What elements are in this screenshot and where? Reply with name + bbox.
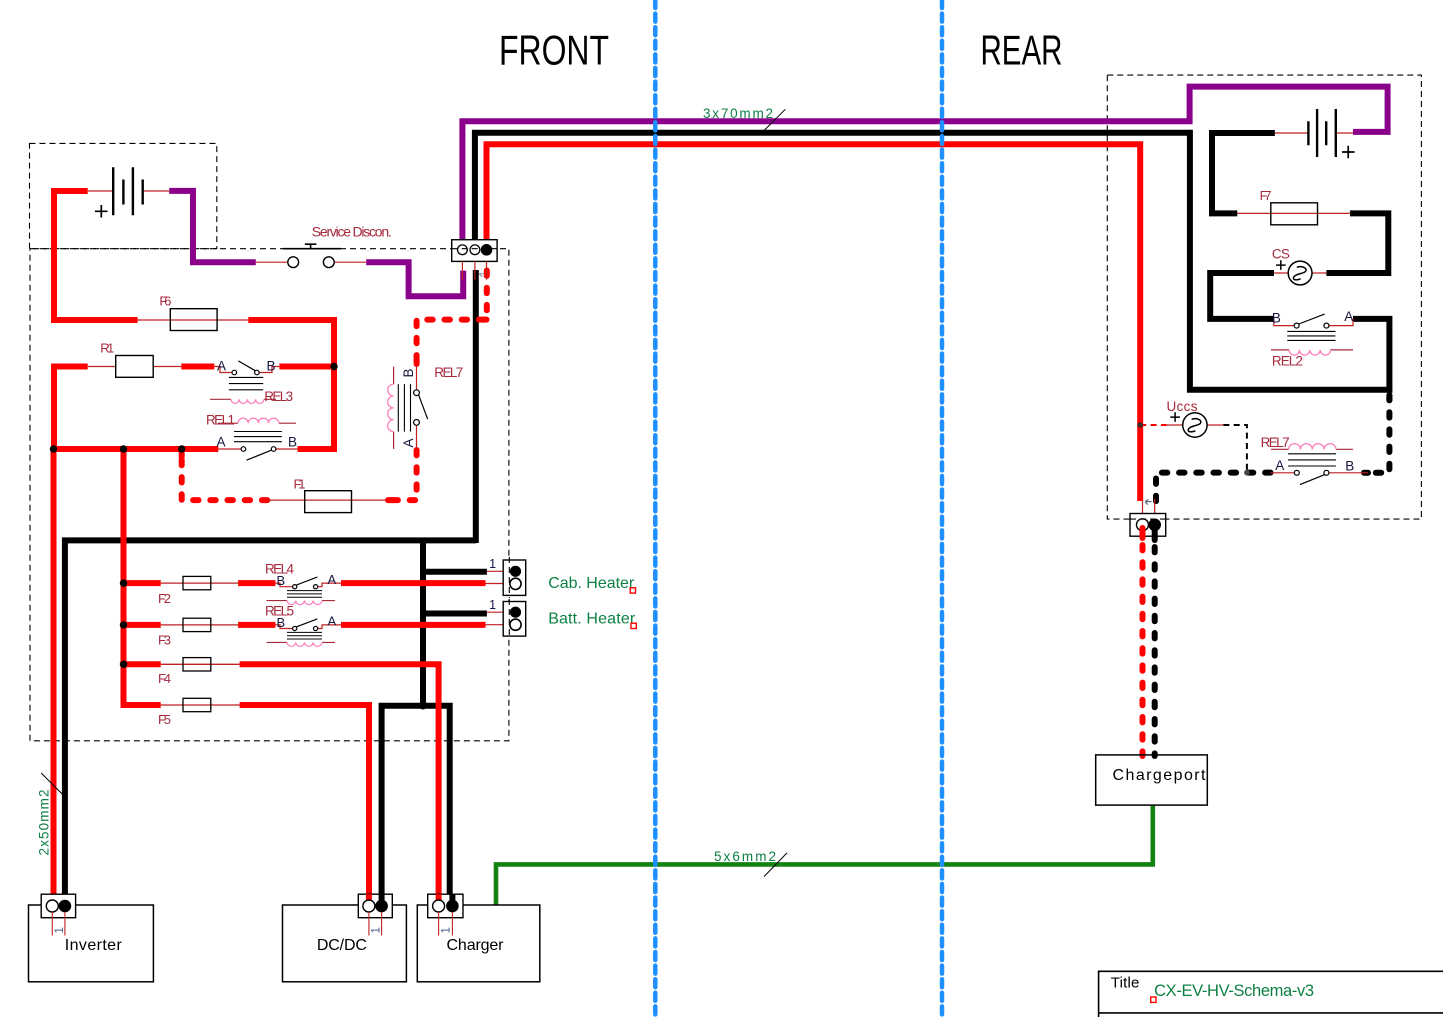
wire black: F7 to CS source: [1326, 213, 1388, 273]
svg-text:REL4: REL4: [265, 562, 294, 577]
source CS: [1272, 247, 1327, 285]
svg-text:Inverter: Inverter: [65, 937, 123, 954]
wire red dashed: connector pin3 down to REL7 contact B: [417, 271, 487, 365]
wire black: connector pin2 down to ground bus: [473, 270, 479, 543]
fuse F4: [158, 658, 240, 687]
connector X7 (charger): [428, 894, 463, 935]
relay REL3 contact: [214, 359, 279, 390]
connector X2 (cab heater, 2-pin): [486, 557, 526, 595]
rear dashed box: [1107, 75, 1421, 519]
relay REL5 coil: [265, 603, 335, 646]
connector X4 (rear HV, 2-pin): [1130, 499, 1166, 536]
svg-text:REL1: REL1: [206, 412, 235, 427]
svg-text:REL7: REL7: [1261, 435, 1290, 450]
svg-text:2x50mm2: 2x50mm2: [37, 790, 52, 856]
junction dot: REL7 coil wire junction: [1244, 470, 1250, 476]
svg-text:1: 1: [489, 557, 496, 571]
relay REL2 coil: [1271, 350, 1353, 368]
wire black: rear battery - to fuse F7: [1212, 133, 1275, 213]
svg-text:B: B: [401, 368, 416, 377]
connector X1 (service, 3-pin): [452, 240, 497, 280]
zone divider mid/rear: [940, 0, 945, 1017]
svg-text:A: A: [217, 359, 226, 374]
wire black: cab heater return tap: [423, 569, 487, 575]
wire red: R1 to REL3 contact A: [181, 364, 214, 370]
wire black: split to DC/DC and charger: [382, 706, 450, 895]
wire black bundle: connector through rear loop: [475, 133, 1392, 390]
wire red: tap to F3: [124, 622, 161, 628]
junction: main bus left: [50, 445, 57, 452]
junction: F4 tap: [120, 661, 127, 668]
resistor R1: [88, 341, 182, 378]
relay REL3 coil: [210, 389, 293, 404]
label Cab. Heater: [548, 575, 635, 593]
wire red: REL3 contact B stub: [279, 364, 334, 370]
svg-text:Chargeport: Chargeport: [1113, 767, 1207, 784]
wire black: heater return drop: [420, 540, 426, 705]
connector X5 (inverter): [41, 894, 75, 935]
svg-text:A: A: [328, 572, 337, 587]
junction: main bus / fuse column: [120, 445, 127, 452]
relay REL4 contact: [275, 572, 341, 597]
relay REL7 (front, vertical): [388, 365, 464, 449]
wire red: F3 to REL5 contact B: [238, 622, 275, 628]
connector X6 (DC/DC): [358, 894, 392, 935]
svg-text:A: A: [401, 438, 416, 447]
wire red: REL5 contact A to batt heater: [341, 622, 486, 628]
wire red dashed: REL7 contact A down to fuse F1: [386, 450, 417, 500]
svg-text:B: B: [1345, 459, 1354, 474]
relay REL7 (rear) contact: [1271, 454, 1369, 485]
fuse F6: [138, 293, 249, 330]
wire black dashed thin: Uccs to REL7 coil circuit: [1223, 425, 1247, 471]
svg-text:REL2: REL2: [1272, 353, 1303, 368]
svg-text:B: B: [267, 359, 276, 374]
junction: cab heater tap: [420, 569, 425, 574]
svg-text:Batt. Heater: Batt. Heater: [548, 610, 636, 627]
connector X4 wire stubs: [1143, 526, 1155, 540]
relay REL5 contact: [275, 614, 341, 639]
wire black: batt heater return tap: [423, 611, 487, 617]
fuse F5: [158, 698, 240, 727]
svg-text:Title: Title: [1111, 975, 1140, 992]
fuse F7: [1237, 188, 1350, 225]
wire black dashed: rear bottom bus to REL7 contact B: [1368, 395, 1389, 473]
svg-text:REL7: REL7: [434, 365, 463, 380]
wire purple: front battery + to service disconnect: [169, 191, 256, 262]
svg-text:A: A: [1344, 309, 1353, 324]
label 5x6mm2 with leader: [714, 849, 787, 877]
svg-text:CX-EV-HV-Schema-v3: CX-EV-HV-Schema-v3: [1154, 982, 1314, 1000]
label 3x70mm2 with leader: [703, 106, 785, 131]
fuse F2: [158, 576, 238, 605]
wire red bundle: connector to rear HV connector: [487, 144, 1141, 501]
wire green: charger to chargeport 5x6mm2: [496, 805, 1153, 905]
junction: main bus / F1 dashed: [178, 445, 185, 452]
wire purple: service disconnect to connector pin 1: [366, 262, 463, 296]
wire red: R1 feed from main bus: [54, 367, 88, 450]
svg-text:F5: F5: [158, 712, 171, 727]
svg-text:F1: F1: [294, 476, 306, 491]
title block frame: [1099, 971, 1443, 1017]
svg-text:CS: CS: [1272, 247, 1290, 262]
svg-text:Cab. Heater: Cab. Heater: [548, 575, 635, 592]
wire red dashed thin: HV red to Uccs source: [1140, 424, 1166, 426]
wire red: F2 to REL4 contact B: [238, 580, 275, 586]
battery BT1 (front): [88, 167, 170, 217]
svg-text:DC/DC: DC/DC: [317, 937, 367, 954]
dashed border overlays across connectors: [452, 249, 1166, 639]
source Uccs: [1167, 399, 1224, 437]
svg-text:FRONT: FRONT: [499, 27, 609, 74]
svg-text:A: A: [1275, 458, 1284, 473]
svg-text:F2: F2: [158, 591, 171, 606]
wire purple bundle: service connector to rear battery +: [462, 87, 1387, 244]
svg-text:F6: F6: [159, 293, 171, 308]
relay REL4 coil: [265, 562, 335, 605]
svg-text:1: 1: [371, 927, 383, 933]
box DC/DC: [283, 905, 407, 982]
wire black dashed: REL7 contact A to rear connector: [1156, 473, 1271, 505]
svg-text:B: B: [1272, 310, 1281, 325]
front battery dashed box: [30, 143, 217, 248]
box Charger: [417, 905, 540, 982]
wire black: REL2 contact A to rear bottom bus: [1353, 319, 1389, 393]
relay REL2 contact: [1272, 309, 1353, 340]
svg-text:F4: F4: [158, 671, 171, 686]
front HV dashed box: [30, 249, 509, 741]
fuse F1: [267, 476, 386, 512]
connector X1 pins: [462, 261, 486, 279]
svg-text:1: 1: [441, 927, 453, 933]
svg-text:Service Discon.: Service Discon.: [312, 224, 392, 240]
svg-text:F3: F3: [158, 633, 171, 648]
svg-text:A: A: [217, 434, 226, 449]
connector X3 (batt heater, 2-pin): [486, 598, 526, 636]
wire black: CS source to REL2 contact B: [1210, 273, 1274, 319]
svg-text:1: 1: [489, 598, 496, 612]
wire red dashed: F1 back to main bus: [182, 452, 268, 500]
junction: black split DC/DC-charger: [419, 702, 426, 709]
junction dot: Uccs tap on red HV: [1137, 422, 1143, 428]
wire red: tap to F2: [124, 580, 161, 586]
wire black dashed: rear connector to chargeport: [1152, 547, 1158, 756]
svg-text:Charger: Charger: [447, 937, 505, 954]
wire red: REL4 contact A to cab heater: [341, 580, 486, 586]
fuse F3: [158, 618, 238, 647]
svg-text:REL3: REL3: [264, 389, 293, 404]
label 2x50mm2 with leader: [37, 773, 65, 856]
wire red: fuse tap column F2-F5: [124, 449, 161, 705]
wire red: tap to F4: [124, 661, 161, 667]
equipment box edges across connectors: [41, 904, 463, 906]
wire black: front ground bus to inverter: [65, 540, 476, 894]
title marker square: [1151, 997, 1156, 1002]
svg-text:REAR: REAR: [981, 27, 1063, 74]
svg-text:1: 1: [54, 927, 66, 933]
label Batt. Heater: [548, 610, 636, 628]
svg-text:R1: R1: [100, 341, 114, 356]
box Inverter: [29, 905, 154, 982]
switch Service Discon.: [256, 224, 392, 268]
svg-text:F7: F7: [1260, 188, 1272, 203]
battery BT2 (rear): [1275, 109, 1355, 158]
wire red dashed: rear connector to chargeport: [1140, 545, 1146, 756]
dash end caps (phase fix): [182, 320, 487, 501]
junction: batt heater tap: [420, 611, 425, 616]
wire red: F4 to charger: [240, 664, 439, 894]
relay REL7 (rear) coil: [1261, 435, 1353, 450]
relay REL1 contact: [217, 432, 298, 461]
svg-text:A: A: [328, 614, 337, 629]
wire red: F5 to DC/DC: [240, 705, 369, 895]
junction: F3 tap: [120, 621, 127, 628]
wire red: F6 to REL3 branch vertical: [248, 320, 334, 449]
box Chargeport: [1096, 755, 1208, 805]
junction: F2 tap: [120, 579, 127, 586]
wire red: front battery + down to fuse F6: [54, 191, 138, 320]
wire red: main bus down to inverter: [51, 449, 57, 895]
junction: REL3 B to vertical: [330, 363, 337, 370]
wire red: main HV bus at REL1 row: [54, 446, 218, 452]
relay REL1 coil: [206, 412, 296, 427]
zone divider front/mid: [653, 0, 658, 1017]
svg-text:Uccs: Uccs: [1167, 399, 1198, 414]
svg-text:REL5: REL5: [265, 603, 294, 618]
svg-text:B: B: [288, 434, 297, 449]
